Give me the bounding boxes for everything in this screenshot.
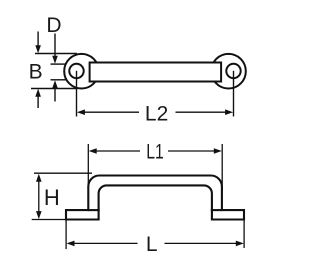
dimension H upper arrow — [36, 174, 42, 182]
svg-text:D: D — [46, 14, 61, 37]
L2 extension line right (from hole center) — [233, 71, 235, 117]
top view: left screw hole circle — [69, 64, 83, 78]
svg-text:L1: L1 — [146, 140, 164, 163]
dimension H lower arrow — [36, 211, 42, 219]
svg-text:L: L — [146, 233, 158, 256]
svg-text:B: B — [29, 60, 43, 83]
dimension line L left segment with arrow — [67, 241, 75, 247]
L extension line left — [65, 220, 67, 249]
L2 extension line left (from hole center) — [76, 71, 78, 117]
extension line: circle top tangent (B upper) — [35, 53, 77, 55]
svg-text:H: H — [44, 185, 60, 210]
dimension D lower arrow — [54, 88, 56, 102]
dimension B upper arrow — [37, 32, 39, 47]
dimension line L2 left segment with arrow — [77, 109, 85, 115]
dimension line L1 right segment with arrow — [214, 148, 222, 154]
L1 extension line left — [87, 144, 89, 190]
dimension line L2 right segment with arrow — [225, 109, 233, 115]
H extension line top — [34, 172, 92, 174]
top view: right end-cap outer circle — [211, 54, 246, 89]
extension line: circle bottom tangent (B lower) — [31, 88, 78, 90]
left foot top edge under leg — [88, 209, 99, 211]
svg-text:L2: L2 — [145, 102, 168, 125]
right foot top edge under leg — [211, 209, 222, 211]
dimension line L right segment with arrow — [236, 241, 244, 247]
extension line: bar bottom (D lower) — [51, 79, 67, 81]
top view: handle bar rectangle — [90, 63, 222, 82]
top view: right screw hole circle — [226, 64, 240, 78]
front view: handle outline — [66, 176, 244, 220]
dimension line L1 left segment with arrow — [89, 148, 97, 154]
dimension H line — [38, 181, 40, 211]
H extension line bottom — [32, 219, 65, 221]
dimension B lower arrow — [37, 96, 39, 108]
dimension D upper arrow (leader from label D) — [54, 34, 56, 57]
L1 extension line right — [221, 144, 223, 190]
top view: left end-cap outer circle — [64, 54, 99, 89]
extension line: bar top (D upper) — [51, 63, 67, 65]
L extension line right — [243, 220, 245, 248]
